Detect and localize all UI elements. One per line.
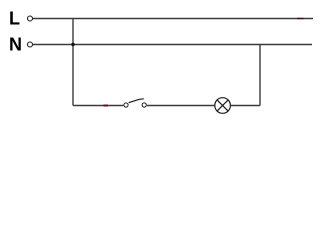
terminal circle N xyxy=(28,42,33,47)
terminal circle L xyxy=(28,16,33,21)
switch S left contact xyxy=(124,103,128,107)
lamp X stroke 2 xyxy=(217,100,228,111)
svg-text:N: N xyxy=(9,35,22,55)
wire right vertical from N to bottom xyxy=(259,45,261,106)
wire switch to lamp xyxy=(147,105,215,107)
wire N line xyxy=(33,44,312,46)
wire lamp to right vertical xyxy=(231,105,260,107)
switch S blade xyxy=(129,99,144,103)
svg-text:L: L xyxy=(9,9,20,29)
junction dot on N line xyxy=(71,43,74,46)
lamp circle xyxy=(215,98,231,114)
red mark on bottom wire xyxy=(103,105,108,107)
wire bottom left segment xyxy=(73,105,123,107)
wire left vertical from L to bottom xyxy=(72,19,74,106)
red mark on L wire xyxy=(297,18,304,20)
wire L line xyxy=(33,18,313,20)
lamp X stroke 1 xyxy=(217,100,228,111)
switch S right contact xyxy=(142,103,146,107)
